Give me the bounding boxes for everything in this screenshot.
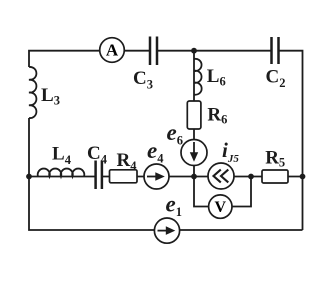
svg-text:V: V: [215, 199, 227, 216]
svg-text:A: A: [106, 41, 119, 60]
